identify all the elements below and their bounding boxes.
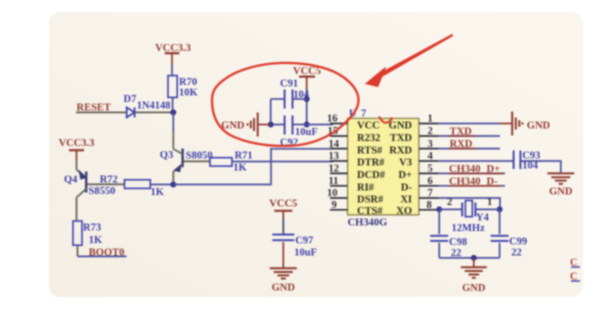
svg-text:RXD: RXD xyxy=(389,145,412,156)
svg-text:C97: C97 xyxy=(295,236,313,247)
svg-text:S8050: S8050 xyxy=(186,150,213,161)
svg-text:RTS#: RTS# xyxy=(357,145,383,156)
svg-text:RI#: RI# xyxy=(357,183,375,194)
svg-text:7: 7 xyxy=(361,109,366,120)
svg-text:BOOT0: BOOT0 xyxy=(89,247,125,258)
svg-text:GND: GND xyxy=(272,283,296,294)
svg-text:CH340: CH340 xyxy=(449,176,481,187)
svg-text:C99: C99 xyxy=(509,236,527,247)
svg-text:XO: XO xyxy=(396,206,412,217)
svg-text:12MHz: 12MHz xyxy=(452,223,486,234)
svg-text:V3: V3 xyxy=(399,158,412,169)
svg-text:D+: D+ xyxy=(487,164,501,175)
svg-text:TXD: TXD xyxy=(450,127,473,138)
svg-text:S8550: S8550 xyxy=(89,186,116,197)
svg-text:10uF: 10uF xyxy=(294,247,317,258)
svg-text:GND: GND xyxy=(549,186,573,197)
svg-text:7: 7 xyxy=(428,188,433,199)
svg-text:1K: 1K xyxy=(233,163,247,174)
svg-text:D7: D7 xyxy=(124,94,137,105)
svg-text:Y4: Y4 xyxy=(476,212,490,223)
svg-text:GND: GND xyxy=(389,120,413,131)
svg-text:C91: C91 xyxy=(280,78,298,89)
svg-text:DCD#: DCD# xyxy=(357,170,386,181)
svg-text:1: 1 xyxy=(428,114,433,125)
svg-text:VCC: VCC xyxy=(357,120,380,131)
svg-text:C98: C98 xyxy=(449,237,467,248)
svg-text:8: 8 xyxy=(427,200,432,211)
svg-text:Q4: Q4 xyxy=(64,175,78,186)
svg-text:9: 9 xyxy=(332,200,337,211)
svg-text:DSR#: DSR# xyxy=(357,195,384,206)
svg-text:1N4148: 1N4148 xyxy=(137,101,171,112)
svg-text:16: 16 xyxy=(327,114,338,125)
svg-text:6: 6 xyxy=(428,176,433,187)
svg-text:10: 10 xyxy=(327,188,338,199)
svg-text:R232: R232 xyxy=(357,133,380,144)
svg-text:1K: 1K xyxy=(151,187,165,198)
svg-text:VCC5: VCC5 xyxy=(269,198,297,209)
svg-text:1K: 1K xyxy=(89,235,103,246)
svg-text:14: 14 xyxy=(329,139,340,150)
svg-text:GND: GND xyxy=(527,120,551,131)
svg-text:D+: D+ xyxy=(398,170,412,181)
svg-text:R70: R70 xyxy=(179,77,197,88)
svg-text:TXD: TXD xyxy=(390,133,413,144)
svg-text:4: 4 xyxy=(428,151,434,162)
svg-text:VCC3.3: VCC3.3 xyxy=(59,138,95,149)
svg-text:R73: R73 xyxy=(83,223,101,234)
svg-text:R71: R71 xyxy=(235,150,253,161)
svg-text:13: 13 xyxy=(329,151,340,162)
svg-text:GND: GND xyxy=(462,283,486,294)
svg-text:104: 104 xyxy=(293,89,310,100)
svg-text:CH340: CH340 xyxy=(449,164,481,175)
svg-text:VCC5: VCC5 xyxy=(293,66,321,77)
svg-text:R72: R72 xyxy=(100,175,118,186)
svg-text:D-: D- xyxy=(487,176,499,187)
svg-text:10uF: 10uF xyxy=(295,127,318,138)
svg-text:22: 22 xyxy=(511,248,522,259)
svg-text:11: 11 xyxy=(329,176,339,187)
svg-text:12: 12 xyxy=(329,164,340,175)
svg-text:3: 3 xyxy=(428,139,433,150)
svg-text:104: 104 xyxy=(522,161,539,172)
svg-text:2: 2 xyxy=(428,126,433,137)
svg-text:1: 1 xyxy=(487,197,492,208)
svg-text:10K: 10K xyxy=(179,88,199,99)
svg-text:CH340G: CH340G xyxy=(348,218,388,229)
svg-text:CTS#: CTS# xyxy=(357,206,383,217)
svg-text:XI: XI xyxy=(400,195,412,206)
svg-text:Q3: Q3 xyxy=(160,150,173,161)
svg-text:DTR#: DTR# xyxy=(357,158,385,169)
svg-text:2: 2 xyxy=(447,197,452,208)
svg-text:RXD: RXD xyxy=(450,139,473,150)
svg-text:D-: D- xyxy=(401,183,413,194)
svg-text:5: 5 xyxy=(428,164,433,175)
